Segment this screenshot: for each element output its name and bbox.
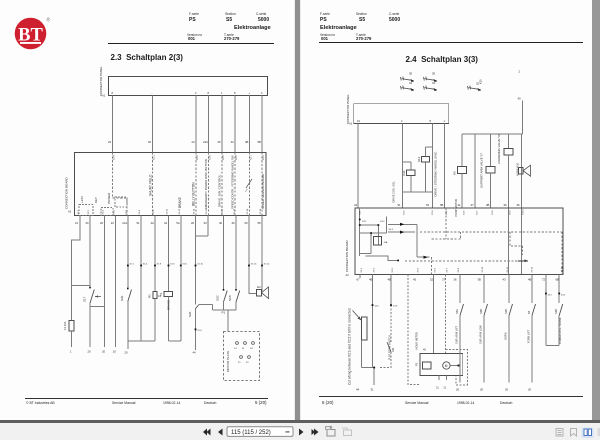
connector panel A1 (109, 77, 268, 96)
svg-text:S3B: S3B (554, 309, 558, 314)
svg-text:X3:7: X3:7 (477, 210, 479, 215)
footer page 1 (25, 397, 268, 400)
wire labels below board (357, 278, 560, 282)
switch S30 blade (128, 290, 132, 302)
svg-text:10: 10 (357, 119, 360, 123)
junction labels (130, 264, 271, 333)
wire 3B to Y7 (490, 134, 492, 167)
svg-text:51: 51 (398, 203, 402, 207)
dashed arrow line (405, 260, 518, 262)
meter motor circle (443, 362, 450, 369)
internal path to right (365, 256, 398, 260)
svg-text:36: 36 (517, 203, 521, 207)
net +24V dashed (113, 153, 128, 216)
svg-text:43:2: 43:2 (375, 306, 380, 308)
svg-text:K6: K6 (453, 171, 457, 175)
svg-text:6B: 6B (556, 278, 560, 282)
wire 21A to S30 (127, 216, 129, 290)
wire 5B (261, 96, 263, 153)
svg-text:67: 67 (357, 278, 361, 282)
K11 branch (402, 162, 432, 192)
wire 44a to coil Y1 (168, 216, 170, 292)
svg-text:SUPPORT ARM VALVE Y7: SUPPORT ARM VALVE Y7 (480, 153, 484, 188)
svg-text:POWER DISC TRUNK: POWER DISC TRUNK (558, 317, 562, 344)
panel pin numbers (112, 91, 264, 95)
svg-text:43:2: 43:2 (561, 295, 566, 297)
wire 22 (114, 216, 116, 348)
svg-text:2: 2 (519, 70, 521, 74)
svg-text:Cut s/long between X2:1 and X2: Cut s/long between X2:1 and X2:2 if SV3 … (348, 308, 352, 385)
svg-text:HORN: HORN (504, 332, 508, 340)
connector panel A1 page2 (354, 104, 449, 124)
wire 21 with fuse F1 (72, 216, 81, 321)
junction terminals X1 row (89, 265, 263, 331)
svg-text:X2:10: X2:10 (482, 266, 484, 272)
dashed jog (510, 232, 523, 255)
relay coil K11 (407, 170, 415, 176)
svg-text:X2:5: X2:5 (418, 267, 420, 272)
svg-text:44: 44 (356, 388, 360, 392)
switch wire FORK LIFT (531, 275, 533, 383)
svg-text:52: 52 (430, 278, 434, 282)
brake coil Y1 (164, 291, 173, 296)
wire below K6 (461, 173, 463, 208)
horn H10 (519, 165, 531, 176)
svg-text:40: 40 (423, 348, 426, 352)
dashed feed right (445, 275, 447, 354)
wire with S20 (195, 236, 197, 305)
toolbar (0, 423, 600, 440)
wire from S17 (90, 303, 105, 347)
wire 58 (261, 216, 263, 292)
legend switch S3 (401, 86, 412, 90)
svg-text:30: 30 (432, 72, 436, 76)
svg-text:X3:4: X3:4 (432, 210, 434, 215)
wire 44 (357, 124, 359, 208)
board bottom pin labels (78, 208, 262, 214)
relay box +24V (79, 205, 93, 216)
net NC dashed (249, 153, 251, 216)
svg-text:X3:2: X3:2 (404, 210, 406, 215)
svg-text:X4:1: X4:1 (362, 221, 367, 223)
svg-text:36: 36 (454, 278, 458, 282)
svg-text:20: 20 (480, 388, 484, 392)
svg-text:CONNECTION BOARD: CONNECTION BOARD (345, 239, 349, 272)
wire 5A (180, 216, 182, 342)
svg-text:31: 31 (432, 81, 436, 85)
svg-text:A1: A1 (349, 122, 353, 126)
net SENSOR dashed (261, 153, 263, 216)
svg-text:DRIVE CON. SOL.: DRIVE CON. SOL. (392, 180, 396, 202)
svg-text:S5A: S5A (455, 309, 459, 314)
internal fuse box (373, 237, 381, 245)
svg-text:37: 37 (471, 203, 475, 207)
svg-text:4B: 4B (369, 278, 373, 282)
svg-text:CONNECTOR PANEL: CONNECTOR PANEL (346, 94, 350, 124)
svg-text:4: 4 (401, 119, 403, 123)
dashed frame right (446, 350, 468, 386)
valve coil Y7 (486, 167, 495, 173)
net BELLY dashed (195, 153, 197, 216)
svg-text:31: 31 (409, 81, 413, 85)
wire X2:2 (390, 275, 392, 306)
wire 46 to S1B (235, 216, 237, 291)
legend switch S2 (424, 77, 435, 81)
svg-text:X2:8: X2:8 (458, 267, 460, 272)
wire 24 (195, 96, 197, 153)
svg-text:31: 31 (436, 387, 439, 390)
meter link (450, 365, 458, 367)
wire 5B (444, 124, 446, 208)
wire labels above board (354, 203, 520, 207)
wire 4B (249, 96, 251, 153)
svg-text:K5: K5 (527, 310, 531, 314)
wire 20 to switch S17 (89, 216, 91, 289)
net SPEED dashed (234, 153, 236, 216)
meter stubs (439, 376, 446, 381)
svg-text:LOWERING VALVE Y9: LOWERING VALVE Y9 (497, 134, 501, 164)
svg-text:20: 20 (456, 388, 460, 392)
svg-text:X3:6: X3:6 (464, 210, 466, 215)
svg-text:X2:11: X2:11 (507, 266, 509, 272)
wire number labels (108, 140, 261, 144)
wire 25 (221, 96, 223, 153)
wire below Y9 (507, 155, 509, 208)
bottom bus S30-R1 (128, 340, 155, 342)
dashed pump net (432, 208, 461, 239)
svg-text:40: 40 (518, 97, 522, 101)
S41 blade (387, 342, 391, 352)
svg-text:1: 1 (444, 119, 446, 123)
svg-text:M: M (445, 364, 448, 368)
svg-text:5B: 5B (440, 203, 444, 207)
wire 4A to R1 (154, 216, 156, 292)
wire 51 (140, 216, 142, 341)
relay coil K6 (457, 167, 466, 174)
dashed frame left (408, 275, 419, 385)
hour meter box P3 (420, 354, 463, 376)
board pin labels top (114, 155, 266, 160)
board internal wire net (360, 208, 387, 256)
svg-text:37: 37 (442, 278, 446, 282)
svg-text:DRIVE / STEERING WHEEL SWC.: DRIVE / STEERING WHEEL SWC. (434, 151, 438, 197)
blade S5A (460, 304, 464, 316)
svg-text:20: 20 (528, 388, 532, 392)
panel pins (357, 119, 446, 123)
svg-text:8: 8 (430, 119, 432, 123)
svg-text:41: 41 (458, 203, 462, 207)
horn H1 (257, 290, 262, 297)
wire from S30 (127, 302, 129, 350)
right icons (556, 429, 563, 437)
motor terminal circles (236, 342, 239, 345)
board pin labels bottom (361, 266, 564, 272)
relay coil K13 (421, 156, 429, 162)
bottom wire numbers (70, 350, 196, 355)
svg-text:HORN H10: HORN H10 (516, 162, 520, 176)
svg-text:36: 36 (504, 203, 508, 207)
note arrow (353, 311, 362, 321)
BT logo (12, 14, 54, 54)
switch wire SUP ARM LOW (483, 275, 485, 383)
svg-text:43:1: 43:1 (548, 295, 553, 297)
wire 36 to Y9 (507, 134, 509, 148)
svg-text:53: 53 (426, 203, 430, 207)
svg-text:HOUR METER: HOUR METER (415, 332, 419, 350)
hour meter feed wire (433, 275, 435, 354)
svg-text:X2:12: X2:12 (532, 266, 534, 272)
svg-text:20: 20 (505, 388, 509, 392)
wire from R1 (154, 298, 156, 341)
wire 41 to K6 (461, 134, 463, 167)
svg-text:4B: 4B (528, 278, 532, 282)
wire 43:1 loop (546, 275, 559, 346)
svg-text:K11: K11 (402, 170, 406, 175)
svg-text:FORK LIFT: FORK LIFT (527, 329, 531, 343)
wire 50 to horn (249, 216, 257, 294)
svg-text:PUMP MOTOR: PUMP MOTOR (454, 199, 458, 217)
svg-text:X4:3: X4:3 (389, 229, 394, 231)
svg-text:43:3: 43:3 (393, 306, 398, 308)
legend labels (409, 72, 480, 86)
two window icons (326, 426, 336, 436)
svg-text:X3:10: X3:10 (523, 209, 525, 215)
svg-text:X2:2: X2:2 (374, 267, 376, 272)
gutter between pages (295, 0, 300, 421)
branch to S17 (72, 285, 91, 287)
blade S3B (559, 304, 563, 316)
meter terminal block (423, 362, 431, 369)
switch wire POWER DISC TRUNK (558, 275, 560, 346)
switch S1B blade (236, 291, 240, 303)
wire X2:1 (372, 275, 374, 306)
wire 36b through board (520, 208, 522, 275)
svg-text:SUP. ARM LOW: SUP. ARM LOW (479, 325, 483, 344)
svg-text:X2:6: X2:6 (435, 267, 437, 272)
wire below Y7 (490, 173, 492, 208)
svg-text:X2:1: X2:1 (361, 267, 363, 272)
svg-text:31: 31 (371, 388, 375, 392)
wire 40 top (522, 101, 524, 135)
connection board A2 page2 (355, 208, 563, 275)
internal feed h2 (388, 231, 415, 233)
svg-text:30: 30 (409, 72, 413, 76)
svg-text:X3:1: X3:1 (360, 210, 362, 215)
switch wire SUP ARM LIFT (459, 275, 461, 383)
legend switch S1 (401, 77, 412, 81)
svg-text:X3:8: X3:8 (492, 210, 494, 215)
jumper bracket (362, 317, 368, 340)
wire 36b to horn (520, 134, 522, 208)
svg-text:S4B: S4B (479, 309, 483, 314)
S17 actuator arrow (95, 296, 101, 298)
net KEY dashed (152, 153, 154, 216)
motor plate dashed box (224, 332, 260, 381)
board pin labels top (360, 209, 525, 215)
wire 24A (208, 96, 210, 153)
S20 staircase to bus (199, 305, 217, 311)
svg-text:4B: 4B (388, 278, 392, 282)
svg-text:X3:5: X3:5 (446, 210, 448, 215)
resistor R1 (153, 291, 157, 298)
nc mark (246, 179, 252, 188)
net EMERGENCY dashed (208, 153, 210, 216)
wire from bracket (362, 305, 375, 385)
net DRIVE dashed (221, 153, 223, 216)
wire 40 to S2C (223, 216, 225, 291)
dashed bus top (420, 232, 562, 275)
wire 37 (474, 134, 476, 208)
internal feed v (417, 224, 429, 257)
legend switch S4 (424, 86, 435, 90)
svg-text:21: 21 (444, 387, 447, 390)
footer page 2 (319, 395, 583, 398)
svg-text:3B: 3B (478, 278, 482, 282)
svg-text:X2:14: X2:14 (562, 266, 564, 272)
svg-text:S41: S41 (392, 347, 395, 352)
wire below S20 (195, 309, 197, 351)
relay box POWER (115, 197, 127, 207)
bottom dark separator (0, 420, 600, 423)
junction dots page 2 (359, 219, 560, 369)
K13 branch (426, 147, 433, 192)
svg-text:10A: 10A (384, 241, 388, 244)
svg-text:X2:7: X2:7 (447, 267, 449, 272)
relay box KEY (101, 208, 113, 216)
fuse F1 (69, 321, 74, 332)
board internal labels (362, 221, 394, 244)
svg-text:A2: A2 (346, 273, 350, 277)
svg-text:K13: K13 (417, 156, 421, 162)
svg-text:3B: 3B (486, 203, 490, 207)
wire below Y1 (169, 297, 181, 342)
wire 23 (112, 96, 114, 153)
svg-text:72: 72 (542, 278, 546, 282)
svg-text:X4:2: X4:2 (380, 221, 385, 223)
svg-text:SUP. ARM LIFT: SUP. ARM LIFT (455, 325, 459, 344)
wire 20c jog (196, 216, 209, 236)
platform switch S41 dashed (390, 305, 392, 342)
blade K5 (532, 304, 536, 316)
connection board A2 (75, 153, 267, 216)
switch wire HORN (508, 275, 510, 383)
svg-text:43: 43 (503, 278, 507, 282)
svg-text:P3: P3 (415, 362, 419, 366)
switch S2C blade (224, 291, 228, 303)
wire numbers below board (75, 221, 261, 225)
svg-text:X2:3: X2:3 (392, 267, 394, 272)
bottom wire labels (356, 388, 532, 392)
svg-text:X3:9: X3:9 (510, 210, 512, 215)
valve coil Y9 (504, 148, 513, 155)
feed arrows (400, 223, 428, 259)
wire 36 through board (507, 208, 509, 275)
switch S17 blade (90, 290, 94, 304)
blade S1B (509, 304, 513, 316)
internal feed h1 (388, 223, 417, 225)
wire 02 (152, 96, 154, 153)
arrowhead (525, 259, 529, 262)
bus 40 (462, 133, 523, 135)
bus P1 (217, 302, 237, 332)
wire 67 stub (359, 275, 361, 279)
dashed net to hour meter (431, 257, 433, 274)
right gray strip (592, 0, 600, 421)
wire 53 (431, 124, 433, 208)
junction labels X2 (375, 295, 567, 308)
svg-text:S1B: S1B (504, 309, 508, 314)
wire below fuse (71, 331, 73, 347)
wire 20b (104, 216, 106, 348)
svg-text:44: 44 (354, 203, 358, 207)
svg-text:K10: K10 (479, 79, 483, 84)
svg-text:45: 45 (413, 278, 417, 282)
switch S20 blade (196, 305, 200, 309)
legend switch K10 (468, 86, 479, 90)
wire 51 (401, 124, 403, 208)
wire 34 (234, 96, 236, 153)
blade S4B (484, 304, 488, 316)
